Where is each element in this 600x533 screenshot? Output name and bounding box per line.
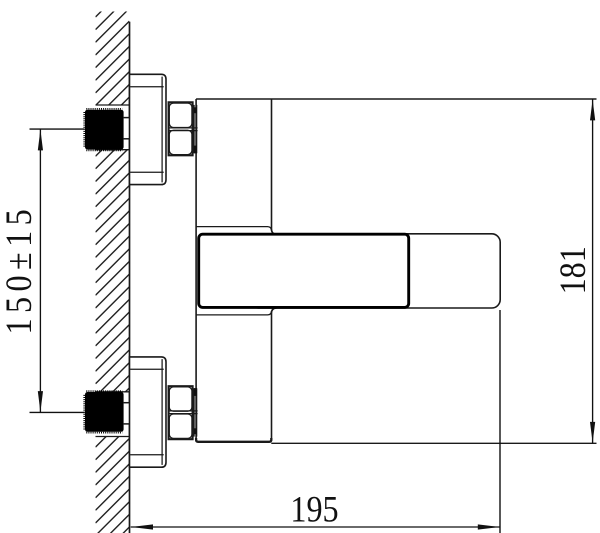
svg-text:150±15: 150±15	[0, 204, 39, 335]
faucet body right edge upper segment	[272, 99, 277, 234]
dimension 150±15 leader lines	[30, 129, 85, 412]
dimension 195 line	[131, 526, 500, 528]
dimension 181 line	[592, 99, 594, 443]
bottom connector threaded wall anchor (black)	[84, 391, 123, 432]
wall hatching	[96, 0, 130, 533]
top connector escutcheon flange	[130, 74, 167, 184]
spout rear section (thin outline, rounded tip)	[250, 234, 500, 308]
svg-text:181: 181	[552, 246, 594, 294]
dimension 150±15 arrows	[38, 129, 43, 412]
extension line bottom for 181	[271, 442, 596, 444]
top connector pipe nipple through wall	[124, 118, 130, 139]
wall face line	[129, 22, 131, 533]
wall hole (top inlet)	[94, 105, 130, 150]
svg-text:195: 195	[290, 489, 338, 531]
bottom connector hex union nut	[169, 386, 198, 439]
bottom connector washer behind nut	[194, 388, 197, 437]
top connector washer behind nut	[194, 105, 197, 153]
top connector hex union nut	[169, 102, 198, 155]
body step line above spout	[196, 227, 271, 231]
faucet body bottom edge	[196, 438, 271, 442]
dimension 195 arrows	[131, 524, 500, 529]
faucet body right edge lower segment	[272, 308, 277, 441]
spout front section (thick outline)	[199, 234, 409, 307]
wall hole (bottom inlet)	[94, 392, 130, 437]
faucet body top edge + extension line for 181	[196, 98, 596, 100]
faucet body left edge	[195, 99, 197, 442]
dimension 195 extension line at spout tip	[499, 310, 501, 533]
bottom connector pipe nipple through wall	[124, 403, 130, 424]
dimension 181 arrows	[590, 99, 595, 443]
top connector threaded wall anchor (black)	[84, 109, 123, 150]
bottom connector escutcheon flange	[130, 357, 167, 467]
body step line below spout	[196, 311, 271, 315]
